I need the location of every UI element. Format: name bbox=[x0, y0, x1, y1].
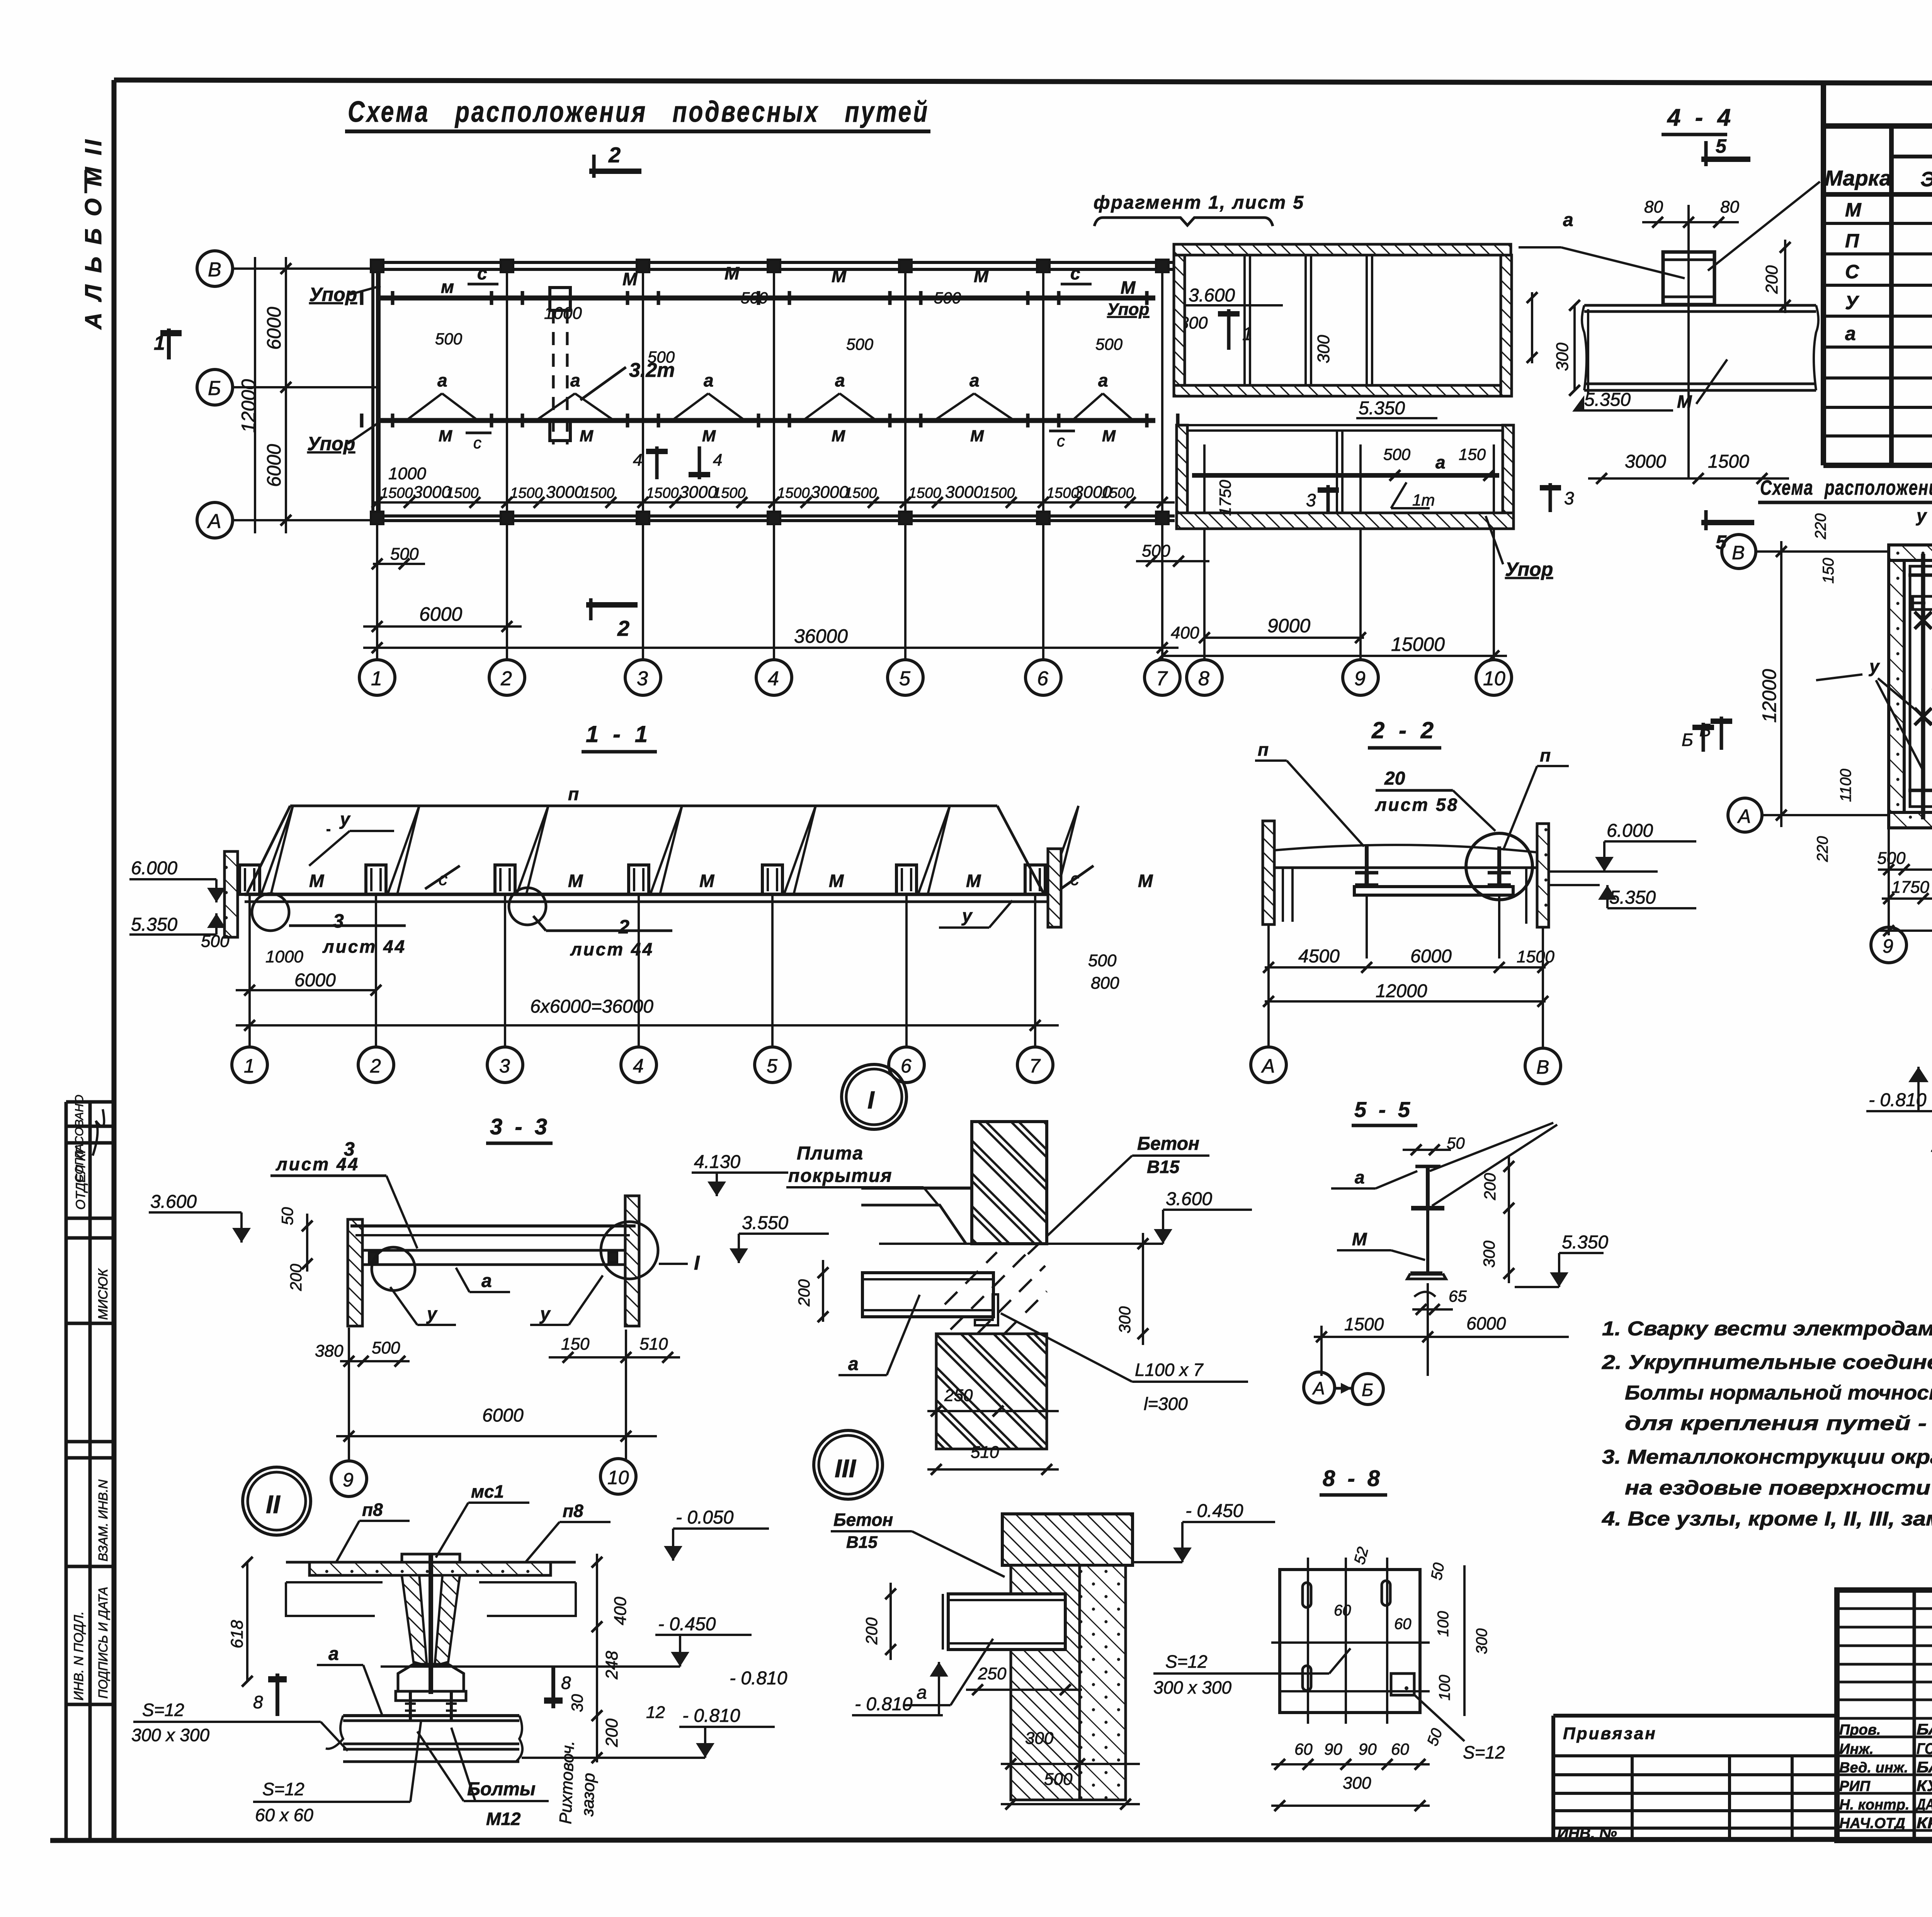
svg-text:6000: 6000 bbox=[294, 970, 336, 991]
svg-text:ДАНИЛЕВСКИЙ: ДАНИЛЕВСКИЙ bbox=[1916, 1795, 1932, 1813]
svg-text:3: 3 bbox=[1306, 490, 1316, 510]
svg-text:5.350: 5.350 bbox=[131, 914, 177, 935]
svg-text:510: 510 bbox=[639, 1335, 668, 1353]
svg-text:зазор: зазор bbox=[578, 1772, 599, 1817]
svg-text:300: 300 bbox=[1025, 1729, 1054, 1748]
svg-text:510: 510 bbox=[971, 1443, 999, 1462]
svg-text:Болты нормальной точности М: Болты нормальной точности М16 гост 7798-… bbox=[1625, 1382, 1932, 1404]
svg-text:- 0.450: - 0.450 bbox=[1185, 1501, 1243, 1521]
svg-text:М: М bbox=[829, 871, 844, 891]
svg-text:2: 2 bbox=[500, 667, 512, 690]
svg-text:а: а bbox=[570, 370, 580, 390]
svg-text:4: 4 bbox=[768, 667, 779, 690]
svg-text:200: 200 bbox=[602, 1718, 621, 1747]
svg-text:а: а bbox=[1563, 210, 1573, 230]
svg-text:6000: 6000 bbox=[419, 603, 462, 625]
svg-text:5.350: 5.350 bbox=[1359, 398, 1405, 419]
svg-text:S=12: S=12 bbox=[1165, 1651, 1207, 1672]
svg-text:а: а bbox=[437, 370, 447, 390]
svg-text:А: А bbox=[1737, 805, 1751, 827]
svg-text:М: М bbox=[702, 427, 716, 445]
svg-text:Упор: Упор bbox=[1107, 300, 1149, 319]
svg-text:- 0.810: - 0.810 bbox=[682, 1706, 740, 1726]
svg-text:l=300: l=300 bbox=[1144, 1394, 1188, 1414]
svg-text:у: у bbox=[539, 1304, 551, 1324]
svg-text:3000: 3000 bbox=[811, 483, 849, 502]
svg-text:500: 500 bbox=[1095, 335, 1123, 353]
svg-text:400: 400 bbox=[611, 1597, 630, 1625]
svg-text:п8: п8 bbox=[563, 1501, 583, 1521]
svg-text:250: 250 bbox=[978, 1664, 1007, 1683]
svg-text:4: 4 bbox=[633, 1055, 644, 1077]
svg-text:у: у bbox=[426, 1304, 438, 1324]
svg-text:п8: п8 bbox=[362, 1500, 383, 1520]
svg-text:12000: 12000 bbox=[1376, 981, 1427, 1001]
svg-text:5.350: 5.350 bbox=[1609, 887, 1656, 908]
svg-text:у: у bbox=[1869, 656, 1880, 676]
svg-text:200: 200 bbox=[795, 1279, 813, 1307]
svg-text:7: 7 bbox=[1156, 667, 1168, 690]
svg-text:1: 1 bbox=[371, 667, 382, 690]
svg-text:а: а bbox=[917, 1682, 927, 1703]
svg-text:60: 60 bbox=[1294, 1740, 1313, 1758]
svg-text:Эскиз: Эскиз bbox=[1920, 168, 1932, 191]
svg-text:6.000: 6.000 bbox=[1607, 821, 1653, 841]
svg-text:1500: 1500 bbox=[982, 485, 1015, 501]
svg-text:6000: 6000 bbox=[263, 444, 285, 487]
svg-text:БАБИКОВА: БАБИКОВА bbox=[1917, 1759, 1932, 1776]
svg-text:200: 200 bbox=[862, 1617, 881, 1645]
svg-text:80: 80 bbox=[1644, 197, 1663, 216]
svg-text:М: М bbox=[970, 427, 984, 445]
svg-text:А: А bbox=[1261, 1055, 1275, 1077]
svg-text:300: 300 bbox=[1480, 1240, 1498, 1268]
svg-text:4: 4 bbox=[633, 451, 642, 470]
svg-text:9000: 9000 bbox=[1267, 615, 1310, 637]
svg-text:ГОЛОВАНОВА: ГОЛОВАНОВА bbox=[1917, 1740, 1932, 1757]
svg-text:Бетон: Бетон bbox=[833, 1510, 893, 1530]
svg-text:50: 50 bbox=[1428, 1561, 1448, 1581]
svg-text:3.600: 3.600 bbox=[150, 1192, 197, 1212]
svg-text:М: М bbox=[832, 266, 847, 286]
svg-text:1500: 1500 bbox=[582, 485, 615, 501]
svg-text:3000: 3000 bbox=[1625, 451, 1666, 472]
svg-text:М: М bbox=[724, 263, 740, 283]
svg-text:Бетон: Бетон bbox=[1137, 1134, 1199, 1154]
svg-text:10: 10 bbox=[1483, 667, 1505, 690]
svg-text:300 х 300: 300 х 300 bbox=[1153, 1677, 1231, 1697]
svg-text:1500: 1500 bbox=[1101, 485, 1134, 501]
svg-text:I: I bbox=[694, 1252, 700, 1274]
svg-text:220: 220 bbox=[1812, 513, 1829, 540]
svg-text:а: а bbox=[1098, 370, 1108, 390]
svg-text:1500: 1500 bbox=[908, 485, 941, 501]
svg-text:500: 500 bbox=[390, 545, 419, 564]
svg-text:ПОДПИСЬ И ДАТА: ПОДПИСЬ И ДАТА bbox=[96, 1587, 110, 1699]
svg-text:- 0.050: - 0.050 bbox=[676, 1507, 734, 1528]
svg-text:3. Металлоконструкции окраси: 3. Металлоконструкции окрасить масляной … bbox=[1602, 1446, 1932, 1468]
svg-text:В: В bbox=[1536, 1056, 1549, 1078]
svg-text:Схема расположения подвесного: Схема расположения подвесного пути в ося… bbox=[1760, 476, 1932, 499]
svg-text:М: М bbox=[1845, 199, 1862, 221]
svg-text:III: III bbox=[835, 1454, 857, 1483]
svg-text:у: у bbox=[961, 906, 973, 926]
svg-text:А: А bbox=[1312, 1378, 1325, 1398]
svg-text:500: 500 bbox=[1044, 1770, 1073, 1789]
svg-text:2: 2 bbox=[617, 616, 629, 640]
svg-text:М12: М12 bbox=[486, 1809, 521, 1829]
svg-text:1500: 1500 bbox=[777, 485, 810, 501]
svg-text:на ездовые поверхности бало: на ездовые поверхности балок подвесных п… bbox=[1625, 1477, 1932, 1499]
svg-text:4. Все узлы, кроме I, II, I: 4. Все узлы, кроме I, II, III, замаркиро… bbox=[1602, 1508, 1932, 1530]
svg-text:а: а bbox=[704, 370, 714, 390]
svg-text:6: 6 bbox=[901, 1055, 912, 1077]
svg-text:300: 300 bbox=[1553, 342, 1572, 371]
svg-text:С: С bbox=[1845, 261, 1859, 283]
svg-text:60: 60 bbox=[1394, 1616, 1412, 1633]
svg-text:покрытия: покрытия bbox=[788, 1166, 893, 1186]
svg-text:2. Укрупнительные соединения: 2. Укрупнительные соединения подвесных п… bbox=[1602, 1351, 1932, 1374]
svg-text:с: с bbox=[477, 263, 487, 283]
svg-text:5: 5 bbox=[767, 1055, 777, 1077]
svg-text:500: 500 bbox=[741, 289, 768, 307]
svg-text:150: 150 bbox=[1820, 558, 1837, 584]
svg-text:380: 380 bbox=[315, 1342, 344, 1360]
svg-text:для крепления путей - 14м: для крепления путей - 14мм. bbox=[1625, 1412, 1932, 1435]
svg-text:1750: 1750 bbox=[1216, 480, 1234, 516]
svg-text:S=12: S=12 bbox=[1463, 1742, 1505, 1762]
svg-text:М: М bbox=[1102, 427, 1116, 445]
svg-text:30: 30 bbox=[568, 1694, 586, 1712]
svg-text:- 0.450: - 0.450 bbox=[658, 1614, 716, 1634]
svg-text:Вед. инж.: Вед. инж. bbox=[1839, 1760, 1908, 1776]
svg-text:500: 500 bbox=[1877, 849, 1906, 868]
svg-text:1: 1 bbox=[244, 1055, 255, 1077]
svg-text:90: 90 bbox=[1359, 1740, 1377, 1758]
svg-text:2: 2 bbox=[608, 143, 621, 167]
svg-text:М: М bbox=[1352, 1229, 1367, 1249]
svg-text:3.550: 3.550 bbox=[742, 1213, 788, 1233]
svg-text:Рихтовоч.: Рихтовоч. bbox=[556, 1740, 578, 1825]
svg-text:6000: 6000 bbox=[263, 307, 285, 350]
svg-text:лист 58: лист 58 bbox=[1375, 795, 1459, 815]
svg-text:1т: 1т bbox=[1412, 491, 1435, 509]
svg-text:8 - 8: 8 - 8 bbox=[1323, 1466, 1383, 1491]
svg-text:Б: Б bbox=[208, 377, 221, 400]
svg-text:а: а bbox=[328, 1644, 339, 1664]
svg-text:В: В bbox=[1732, 542, 1745, 564]
svg-text:а: а bbox=[1435, 452, 1446, 472]
svg-text:200: 200 bbox=[1481, 1173, 1499, 1200]
svg-text:а: а bbox=[969, 370, 980, 390]
svg-text:а: а bbox=[1845, 323, 1856, 344]
svg-text:8: 8 bbox=[1198, 667, 1209, 690]
svg-text:у: у bbox=[339, 809, 351, 829]
svg-text:60 х 60: 60 х 60 bbox=[255, 1805, 313, 1825]
svg-text:п: п bbox=[568, 784, 579, 804]
svg-text:Инж.: Инж. bbox=[1839, 1741, 1874, 1757]
svg-text:9: 9 bbox=[1354, 667, 1366, 690]
svg-text:1500: 1500 bbox=[646, 485, 679, 501]
svg-text:618: 618 bbox=[228, 1620, 247, 1648]
svg-text:фрагмент 1, лист 5: фрагмент 1, лист 5 bbox=[1094, 192, 1304, 213]
svg-text:S=12: S=12 bbox=[142, 1700, 184, 1720]
svg-text:ВЗАМ. ИНВ.N: ВЗАМ. ИНВ.N bbox=[96, 1479, 110, 1561]
svg-text:- 0.810: - 0.810 bbox=[855, 1694, 913, 1714]
svg-text:с: с bbox=[1057, 432, 1065, 450]
svg-text:Схема расположения подвесных: Схема расположения подвесных путей bbox=[348, 95, 929, 128]
svg-text:4 - 4: 4 - 4 bbox=[1667, 104, 1735, 131]
svg-text:8: 8 bbox=[561, 1673, 571, 1693]
svg-text:200: 200 bbox=[1762, 265, 1781, 294]
svg-text:а: а bbox=[1355, 1167, 1365, 1187]
svg-text:500: 500 bbox=[372, 1338, 400, 1357]
svg-text:3: 3 bbox=[333, 910, 344, 932]
svg-text:Н. контр.: Н. контр. bbox=[1839, 1797, 1910, 1813]
svg-text:Привязан: Привязан bbox=[1563, 1724, 1657, 1743]
svg-text:500: 500 bbox=[201, 932, 230, 951]
svg-text:В15: В15 bbox=[846, 1533, 878, 1552]
svg-text:80: 80 bbox=[1720, 197, 1739, 216]
svg-text:РИП: РИП bbox=[1839, 1778, 1871, 1794]
svg-text:3.2т: 3.2т bbox=[629, 359, 675, 381]
svg-text:4: 4 bbox=[713, 451, 722, 470]
svg-text:10: 10 bbox=[607, 1467, 629, 1488]
svg-text:а: а bbox=[848, 1354, 859, 1374]
svg-text:3000: 3000 bbox=[413, 483, 451, 502]
svg-text:50: 50 bbox=[278, 1207, 296, 1225]
svg-text:- 0.810: - 0.810 bbox=[730, 1668, 787, 1689]
svg-text:150: 150 bbox=[1459, 445, 1486, 463]
svg-text:S=12: S=12 bbox=[262, 1779, 304, 1799]
svg-text:1 - 1: 1 - 1 bbox=[586, 721, 651, 747]
svg-text:500: 500 bbox=[846, 335, 874, 353]
svg-text:мс1: мс1 bbox=[471, 1481, 504, 1502]
svg-text:М: М bbox=[966, 871, 981, 891]
svg-text:1500: 1500 bbox=[1344, 1314, 1384, 1334]
svg-text:1: 1 bbox=[154, 332, 165, 354]
svg-text:90: 90 bbox=[1324, 1740, 1342, 1758]
svg-text:М: М bbox=[832, 427, 845, 445]
svg-text:248: 248 bbox=[602, 1651, 621, 1680]
svg-text:L100 x 7: L100 x 7 bbox=[1135, 1360, 1204, 1380]
svg-text:60: 60 bbox=[1391, 1740, 1409, 1758]
svg-text:5.350: 5.350 bbox=[1584, 390, 1631, 410]
svg-text:3: 3 bbox=[1564, 488, 1574, 508]
svg-text:п: п bbox=[1540, 745, 1551, 765]
svg-text:а: а bbox=[835, 370, 845, 390]
svg-text:250: 250 bbox=[944, 1386, 973, 1405]
svg-text:9: 9 bbox=[1883, 935, 1893, 957]
svg-text:800: 800 bbox=[1091, 974, 1119, 993]
svg-text:300: 300 bbox=[1314, 335, 1333, 363]
svg-text:3000: 3000 bbox=[546, 483, 584, 502]
svg-text:4500: 4500 bbox=[1298, 946, 1340, 967]
svg-text:Плита: Плита bbox=[797, 1143, 864, 1164]
svg-text:с: с bbox=[1070, 263, 1080, 283]
svg-text:15000: 15000 bbox=[1391, 633, 1445, 655]
svg-text:8: 8 bbox=[253, 1692, 263, 1712]
svg-text:с: с bbox=[473, 434, 481, 452]
svg-text:1100: 1100 bbox=[1837, 769, 1854, 802]
svg-text:1500: 1500 bbox=[510, 485, 543, 501]
svg-text:Б: Б bbox=[1682, 730, 1693, 750]
svg-text:300 х 300: 300 х 300 bbox=[131, 1725, 209, 1745]
svg-text:Болты: Болты bbox=[467, 1779, 536, 1800]
svg-text:6х6000=36000: 6х6000=36000 bbox=[530, 996, 653, 1017]
svg-text:лист 44: лист 44 bbox=[570, 939, 654, 959]
svg-text:20: 20 bbox=[1384, 768, 1405, 789]
svg-text:5.350: 5.350 bbox=[1562, 1232, 1608, 1253]
svg-text:6000: 6000 bbox=[482, 1405, 524, 1426]
svg-text:100: 100 bbox=[1436, 1675, 1453, 1701]
svg-text:500: 500 bbox=[1142, 541, 1170, 560]
svg-text:2: 2 bbox=[370, 1055, 381, 1077]
svg-text:2: 2 bbox=[618, 916, 629, 938]
svg-text:3 - 3: 3 - 3 bbox=[490, 1114, 550, 1139]
svg-text:220: 220 bbox=[1814, 836, 1831, 862]
svg-text:а: а bbox=[481, 1271, 492, 1291]
svg-text:3: 3 bbox=[499, 1055, 510, 1077]
svg-text:Пров.: Пров. bbox=[1839, 1722, 1881, 1738]
svg-text:3.600: 3.600 bbox=[1166, 1189, 1212, 1209]
svg-text:М: М bbox=[1677, 392, 1692, 412]
svg-text:150: 150 bbox=[561, 1335, 590, 1353]
svg-text:500: 500 bbox=[1088, 951, 1117, 970]
svg-text:Б: Б bbox=[1362, 1380, 1373, 1400]
svg-text:м: м bbox=[441, 277, 454, 297]
svg-text:п: п bbox=[1258, 739, 1269, 759]
svg-text:3: 3 bbox=[637, 667, 648, 690]
svg-text:КУЗНЕЦОВ.: КУЗНЕЦОВ. bbox=[1917, 1777, 1932, 1794]
svg-text:3000: 3000 bbox=[679, 483, 717, 502]
svg-text:А Л Ь Б О М II: А Л Ь Б О М II bbox=[80, 137, 106, 330]
svg-text:А: А bbox=[207, 510, 221, 533]
svg-text:9: 9 bbox=[343, 1469, 354, 1491]
svg-text:У: У bbox=[1845, 292, 1860, 313]
svg-text:М: М bbox=[309, 871, 325, 891]
svg-text:12: 12 bbox=[646, 1703, 665, 1722]
svg-text:1500: 1500 bbox=[713, 485, 746, 501]
svg-text:5 - 5: 5 - 5 bbox=[1354, 1097, 1413, 1122]
svg-text:В15: В15 bbox=[1147, 1157, 1180, 1177]
svg-text:500: 500 bbox=[435, 330, 463, 348]
svg-text:I: I bbox=[867, 1086, 875, 1114]
svg-text:НАЧ.ОТД: НАЧ.ОТД bbox=[1839, 1815, 1905, 1832]
svg-text:1750: 1750 bbox=[1891, 878, 1929, 897]
svg-text:3000: 3000 bbox=[945, 483, 983, 502]
svg-text:400: 400 bbox=[1171, 623, 1199, 642]
svg-text:36000: 36000 bbox=[794, 625, 848, 647]
svg-text:1: 1 bbox=[1242, 324, 1253, 344]
svg-text:12000: 12000 bbox=[1759, 669, 1780, 723]
svg-text:СОГЛАСОВАНО: СОГЛАСОВАНО bbox=[73, 1095, 86, 1183]
svg-text:1000: 1000 bbox=[265, 947, 303, 966]
svg-text:1500: 1500 bbox=[844, 485, 877, 501]
svg-text:300: 300 bbox=[1473, 1628, 1490, 1654]
svg-text:Упор: Упор bbox=[1505, 558, 1553, 580]
svg-text:БАБИКОВА: БАБИКОВА bbox=[1917, 1721, 1932, 1738]
svg-text:65: 65 bbox=[1449, 1287, 1467, 1305]
svg-text:М: М bbox=[580, 427, 594, 445]
svg-text:6000: 6000 bbox=[1466, 1313, 1506, 1333]
svg-text:М: М bbox=[699, 871, 715, 891]
svg-text:М: М bbox=[622, 269, 638, 289]
svg-text:1500: 1500 bbox=[1517, 947, 1554, 966]
svg-text:1500: 1500 bbox=[1708, 451, 1749, 472]
svg-text:лист 44: лист 44 bbox=[322, 936, 406, 957]
svg-text:6000: 6000 bbox=[1410, 946, 1452, 967]
svg-text:60: 60 bbox=[1334, 1602, 1351, 1619]
svg-text:1500: 1500 bbox=[380, 485, 413, 501]
svg-text:II: II bbox=[266, 1490, 281, 1519]
svg-text:500: 500 bbox=[1383, 445, 1411, 463]
svg-text:300: 300 bbox=[1343, 1774, 1371, 1793]
svg-text:100: 100 bbox=[1435, 1611, 1452, 1637]
svg-text:6: 6 bbox=[1037, 667, 1048, 690]
svg-text:лист 44: лист 44 bbox=[276, 1154, 359, 1174]
svg-text:4.130: 4.130 bbox=[694, 1152, 740, 1172]
svg-text:ИНВ. N ПОДЛ.: ИНВ. N ПОДЛ. bbox=[71, 1611, 86, 1701]
svg-text:300: 300 bbox=[1116, 1306, 1134, 1333]
svg-text:5: 5 bbox=[899, 667, 911, 690]
svg-text:М: М bbox=[974, 266, 989, 286]
svg-text:КРАСАВИН: КРАСАВИН bbox=[1917, 1815, 1932, 1832]
svg-text:500: 500 bbox=[934, 289, 961, 307]
svg-text:П: П bbox=[1845, 230, 1859, 252]
svg-text:Марка: Марка bbox=[1825, 166, 1891, 190]
svg-text:6.000: 6.000 bbox=[131, 858, 177, 878]
svg-text:М: М bbox=[1121, 278, 1136, 298]
svg-text:у: у bbox=[1916, 506, 1927, 526]
svg-text:М: М bbox=[568, 871, 583, 891]
svg-text:3.600: 3.600 bbox=[1189, 285, 1235, 306]
svg-text:М: М bbox=[1138, 871, 1153, 891]
svg-text:В: В bbox=[208, 259, 221, 281]
svg-text:1. Сварку вести электродами: 1. Сварку вести электродами Э42 гост 946… bbox=[1602, 1318, 1932, 1340]
svg-text:5: 5 bbox=[1716, 135, 1727, 157]
svg-text:ИНВ. №: ИНВ. № bbox=[1557, 1825, 1617, 1842]
svg-text:М: М bbox=[439, 427, 452, 445]
svg-text:1500: 1500 bbox=[446, 485, 479, 501]
svg-text:МИСЮК: МИСЮК bbox=[96, 1268, 111, 1320]
svg-text:2 - 2: 2 - 2 bbox=[1371, 717, 1437, 743]
svg-text:7: 7 bbox=[1029, 1055, 1041, 1077]
svg-text:1000: 1000 bbox=[388, 464, 426, 483]
